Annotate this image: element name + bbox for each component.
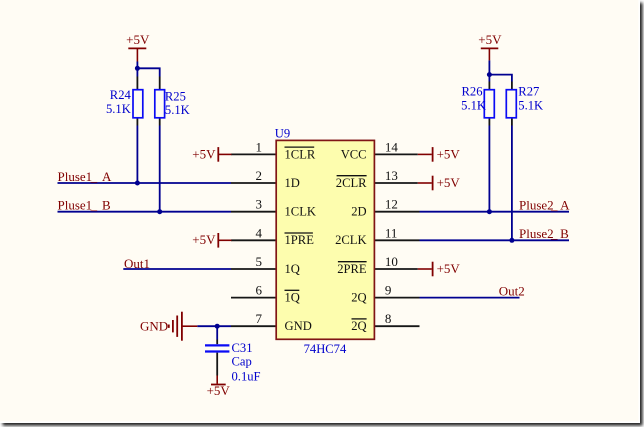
svg-text:Pluse2_A: Pluse2_A bbox=[519, 198, 570, 213]
svg-text:Out2: Out2 bbox=[499, 283, 525, 298]
svg-text:2PRE: 2PRE bbox=[337, 262, 367, 276]
svg-text:1: 1 bbox=[256, 139, 263, 154]
svg-text:+5V: +5V bbox=[126, 32, 150, 47]
svg-text:7: 7 bbox=[256, 311, 263, 326]
svg-text:8: 8 bbox=[385, 311, 392, 326]
svg-text:R25: R25 bbox=[165, 90, 186, 104]
svg-text:GND: GND bbox=[285, 319, 312, 333]
svg-text:+5V: +5V bbox=[192, 146, 216, 161]
svg-text:R27: R27 bbox=[518, 85, 539, 99]
svg-text:2Q: 2Q bbox=[351, 291, 366, 305]
svg-text:4: 4 bbox=[256, 225, 263, 240]
svg-text:14: 14 bbox=[385, 139, 399, 154]
svg-text:+5V: +5V bbox=[437, 146, 461, 161]
svg-text:11: 11 bbox=[385, 225, 398, 240]
svg-text:1D: 1D bbox=[285, 176, 300, 190]
svg-text:+5V: +5V bbox=[207, 383, 231, 398]
svg-text:+5V: +5V bbox=[437, 175, 461, 190]
svg-text:3: 3 bbox=[256, 197, 263, 212]
svg-text:13: 13 bbox=[385, 168, 398, 183]
svg-text:5.1K: 5.1K bbox=[165, 103, 190, 117]
svg-text:1Q: 1Q bbox=[285, 262, 300, 276]
svg-text:74HC74: 74HC74 bbox=[304, 342, 347, 356]
svg-text:12: 12 bbox=[385, 197, 398, 212]
svg-text:R24: R24 bbox=[110, 88, 132, 102]
svg-text:R26: R26 bbox=[462, 85, 483, 99]
svg-text:U9: U9 bbox=[275, 126, 290, 140]
svg-text:5: 5 bbox=[256, 254, 263, 269]
svg-text:Pluse2_B: Pluse2_B bbox=[519, 226, 569, 241]
svg-text:5.1K: 5.1K bbox=[461, 98, 486, 112]
svg-text:Pluse1_B: Pluse1_B bbox=[58, 198, 111, 213]
svg-text:9: 9 bbox=[385, 283, 392, 298]
svg-text:VCC: VCC bbox=[341, 147, 367, 161]
svg-text:+5V: +5V bbox=[478, 32, 502, 47]
svg-text:1CLK: 1CLK bbox=[285, 205, 316, 219]
svg-text:GND: GND bbox=[140, 318, 168, 333]
svg-text:5.1K: 5.1K bbox=[106, 102, 131, 116]
svg-text:2: 2 bbox=[256, 168, 263, 183]
svg-text:0.1uF: 0.1uF bbox=[232, 370, 261, 384]
svg-text:5.1K: 5.1K bbox=[518, 98, 543, 112]
svg-text:Cap: Cap bbox=[232, 354, 252, 368]
svg-text:+5V: +5V bbox=[437, 261, 461, 276]
svg-text:Pluse1_A: Pluse1_A bbox=[58, 169, 112, 184]
svg-text:10: 10 bbox=[385, 254, 398, 269]
svg-text:2D: 2D bbox=[351, 205, 366, 219]
svg-text:C31: C31 bbox=[232, 341, 253, 355]
svg-text:2CLR: 2CLR bbox=[336, 176, 367, 190]
svg-text:Out1: Out1 bbox=[124, 256, 150, 271]
svg-text:1CLR: 1CLR bbox=[285, 147, 316, 161]
svg-text:6: 6 bbox=[256, 283, 263, 298]
svg-text:+5V: +5V bbox=[192, 232, 216, 247]
svg-text:2CLK: 2CLK bbox=[335, 233, 366, 247]
svg-text:1PRE: 1PRE bbox=[285, 233, 315, 247]
svg-text:1Q: 1Q bbox=[285, 291, 300, 305]
svg-text:2Q: 2Q bbox=[351, 319, 366, 333]
